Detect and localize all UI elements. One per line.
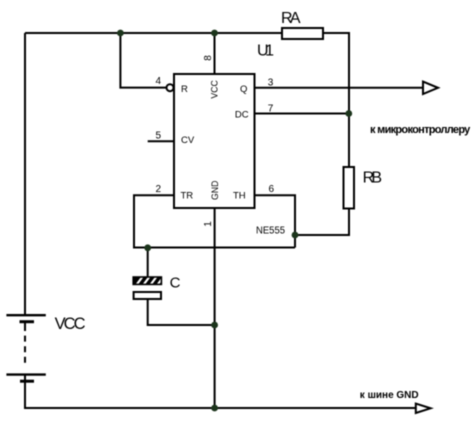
svg-text:U1: U1 bbox=[257, 43, 274, 60]
svg-text:к микроконтроллеру: к микроконтроллеру bbox=[370, 124, 471, 136]
svg-text:Q: Q bbox=[240, 84, 247, 95]
svg-text:GND: GND bbox=[210, 180, 221, 200]
svg-text:2: 2 bbox=[156, 184, 162, 195]
svg-text:3: 3 bbox=[268, 77, 274, 88]
svg-text:VCC: VCC bbox=[55, 315, 86, 333]
svg-text:6: 6 bbox=[269, 184, 275, 195]
svg-text:RA: RA bbox=[281, 10, 301, 27]
svg-text:8: 8 bbox=[203, 55, 214, 61]
svg-text:CV: CV bbox=[181, 135, 195, 146]
svg-text:C: C bbox=[170, 274, 181, 291]
svg-text:NE555: NE555 bbox=[256, 226, 285, 237]
svg-text:VCC: VCC bbox=[210, 80, 221, 99]
svg-text:5: 5 bbox=[156, 131, 162, 142]
svg-text:TR: TR bbox=[181, 191, 194, 202]
svg-text:TH: TH bbox=[233, 191, 246, 202]
svg-text:к шине GND: к шине GND bbox=[360, 390, 419, 401]
svg-text:1: 1 bbox=[203, 221, 214, 227]
svg-text:RB: RB bbox=[363, 170, 383, 187]
svg-text:7: 7 bbox=[268, 103, 274, 114]
svg-text:R: R bbox=[181, 84, 188, 95]
svg-text:DC: DC bbox=[235, 109, 249, 120]
svg-text:4: 4 bbox=[156, 76, 162, 87]
